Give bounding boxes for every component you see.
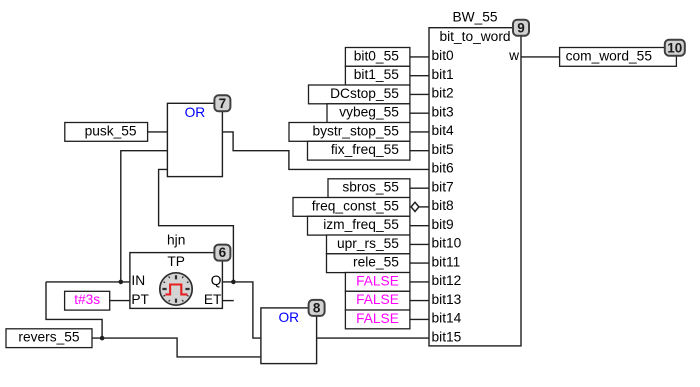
wire stub to bit4 <box>410 131 429 133</box>
svg-text:izm_freq_55: izm_freq_55 <box>323 217 399 232</box>
svg-text:IN: IN <box>131 273 145 288</box>
svg-text:bit12: bit12 <box>432 273 462 288</box>
constant FALSE (bit12) <box>345 273 410 292</box>
svg-text:bit2: bit2 <box>432 86 454 101</box>
svg-text:FALSE: FALSE <box>356 311 399 326</box>
wire TP.Q stub <box>222 281 233 283</box>
svg-text:revers_55: revers_55 <box>18 330 79 345</box>
wire stub to bit12 <box>410 281 429 283</box>
OR gate U7 body <box>167 103 222 176</box>
wire stub to bit10 <box>410 243 429 245</box>
svg-text:bit13: bit13 <box>432 292 462 307</box>
svg-text:8: 8 <box>313 301 321 316</box>
wire revers_55 to OR8 in2 <box>92 338 261 357</box>
wire branch TP.IN net to OR7 in2 <box>121 151 168 282</box>
input box DCstop_55 <box>309 85 410 104</box>
input box bystr_stop_55 <box>289 123 410 142</box>
svg-text:w: w <box>508 48 519 63</box>
svg-text:TP: TP <box>167 254 185 269</box>
svg-text:ET: ET <box>204 292 222 307</box>
svg-text:bit_to_word: bit_to_word <box>439 29 510 44</box>
svg-text:fix_freq_55: fix_freq_55 <box>331 142 399 157</box>
svg-text:Q: Q <box>211 273 222 288</box>
svg-text:sbros_55: sbros_55 <box>342 180 399 195</box>
svg-text:bit6: bit6 <box>432 161 455 176</box>
junction dot (TP.Q branch) <box>231 280 236 285</box>
function block BW_55 (bit_to_word) body <box>429 28 521 346</box>
svg-text:bit3: bit3 <box>432 104 455 119</box>
wire TP.Q to OR8 in1 <box>233 282 261 338</box>
input box fix_freq_55 <box>308 141 410 160</box>
wire stub to bit7 <box>410 187 429 189</box>
wire net revers to TP.IN <box>46 281 130 283</box>
constant FALSE (bit14) <box>345 310 410 329</box>
wire stub to bit11 <box>410 262 429 264</box>
svg-text:9: 9 <box>517 20 525 35</box>
badge 8 (network id) <box>309 300 325 316</box>
badge 7 (network id) <box>214 95 230 111</box>
wire w output to com_word_55 <box>521 56 560 58</box>
svg-text:bit9: bit9 <box>432 217 454 232</box>
input box bit0_55 <box>345 48 410 67</box>
svg-text:upr_rs_55: upr_rs_55 <box>337 236 399 251</box>
svg-text:bit4: bit4 <box>432 123 455 138</box>
svg-text:rele_55: rele_55 <box>353 255 399 270</box>
svg-text:freq_const_55: freq_const_55 <box>312 198 399 213</box>
svg-text:10: 10 <box>667 40 682 55</box>
wire stub to bit8 (left of diamond) <box>410 206 411 208</box>
input box rele_55 <box>327 254 410 273</box>
svg-text:bit7: bit7 <box>432 179 454 194</box>
badge 6 (network id) <box>214 245 230 261</box>
svg-text:bit5: bit5 <box>432 142 455 157</box>
input box upr_rs_55 <box>327 235 410 254</box>
wire stub to bit8 (right of diamond) <box>419 206 429 208</box>
badge 9 (network id) <box>513 20 529 36</box>
svg-text:hjn: hjn <box>167 233 185 248</box>
svg-text:bit0: bit0 <box>432 48 455 63</box>
svg-text:FALSE: FALSE <box>356 273 399 288</box>
svg-text:DCstop_55: DCstop_55 <box>330 86 399 101</box>
wire ET stub (open) <box>222 300 233 302</box>
input box freq_const_55 <box>293 198 410 217</box>
connection diamond on bit8 wire <box>411 202 419 211</box>
input box sbros_55 <box>328 179 410 198</box>
input box bit1_55 <box>345 66 410 85</box>
svg-text:7: 7 <box>219 96 227 111</box>
svg-text:OR: OR <box>278 310 299 325</box>
wire stub to bit2 <box>410 93 429 95</box>
svg-text:bit1_55: bit1_55 <box>354 67 399 82</box>
svg-text:bit8: bit8 <box>432 198 455 213</box>
svg-text:BW_55: BW_55 <box>452 9 497 24</box>
input box pusk_55 <box>65 123 148 142</box>
wire stub to bit0 <box>410 56 429 58</box>
svg-text:bit1: bit1 <box>432 67 454 82</box>
wire net revers riser (left of t#3s) <box>46 282 102 338</box>
wire stub to bit1 <box>410 75 429 77</box>
wire stub to bit3 <box>410 112 429 114</box>
input box izm_freq_55 <box>308 216 410 235</box>
svg-text:PT: PT <box>131 292 149 307</box>
wire OR8 out to bit15 <box>317 337 429 339</box>
svg-text:OR: OR <box>185 105 206 120</box>
svg-text:vybeg_55: vybeg_55 <box>339 105 399 120</box>
svg-text:bit11: bit11 <box>432 254 461 269</box>
svg-text:pusk_55: pusk_55 <box>85 123 137 138</box>
OR gate U8 body <box>261 308 317 364</box>
TP clock icon <box>160 273 192 305</box>
junction dot (revers branch) <box>100 336 105 341</box>
wire t#3s to PT <box>110 300 130 302</box>
svg-text:FALSE: FALSE <box>356 292 399 307</box>
wire pusk_55 to OR7 in1 <box>148 131 168 133</box>
wire stub to bit9 <box>410 225 429 227</box>
wire stub to bit14 <box>410 318 429 320</box>
svg-text:6: 6 <box>219 245 227 260</box>
svg-text:com_word_55: com_word_55 <box>566 48 653 63</box>
svg-text:bit14: bit14 <box>432 311 462 326</box>
constant t#3s <box>65 291 110 310</box>
constant FALSE (bit13) <box>345 291 410 310</box>
svg-text:bit10: bit10 <box>432 236 462 251</box>
svg-text:bystr_stop_55: bystr_stop_55 <box>313 123 400 138</box>
wire OR7 out to bit6 <box>222 132 429 170</box>
input box revers_55 <box>6 329 92 348</box>
wire stub to bit13 <box>410 300 429 302</box>
badge 10 (network id) <box>665 40 685 56</box>
svg-text:bit0_55: bit0_55 <box>354 48 399 63</box>
svg-text:t#3s: t#3s <box>74 292 100 307</box>
timer TP (hjn) body <box>130 253 223 309</box>
output box com_word_55 <box>560 48 677 67</box>
junction dot (TP.IN branch) <box>119 280 124 285</box>
svg-text:bit15: bit15 <box>432 329 462 344</box>
input box vybeg_55 <box>327 104 410 123</box>
wire stub to bit5 <box>410 150 429 152</box>
wire TP.Q to OR7 in3 <box>159 169 234 282</box>
